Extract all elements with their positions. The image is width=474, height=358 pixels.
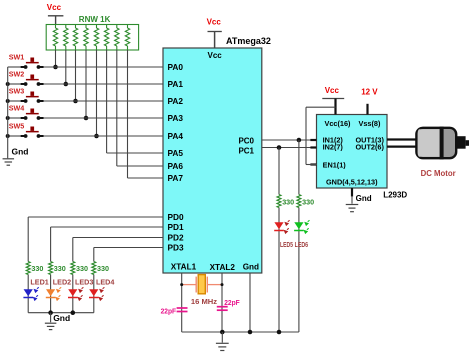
junction LED bus col2 <box>48 310 53 315</box>
svg-text:LED2: LED2 <box>53 277 71 286</box>
pin label PD1 <box>168 222 185 232</box>
svg-text:12 V: 12 V <box>361 88 378 97</box>
pin stub IN2 <box>310 146 316 148</box>
resistor RNW element 4 <box>84 25 88 51</box>
svg-text:330: 330 <box>302 198 314 207</box>
power Vcc symbol (U1) <box>207 18 222 49</box>
label L293D <box>383 190 407 199</box>
svg-text:ATmega32: ATmega32 <box>226 36 271 46</box>
wire PD1 to LED2 column <box>51 227 163 313</box>
LED LED1 <box>23 287 38 301</box>
LED LED2 <box>46 287 61 301</box>
pin label PA1 <box>168 79 184 89</box>
svg-text:PD3: PD3 <box>168 243 185 253</box>
resistor 330 (LED2) <box>49 262 66 275</box>
svg-text:PA2: PA2 <box>168 96 184 106</box>
switch SW3 <box>8 87 163 103</box>
resistor 330 (LED3) <box>71 262 88 275</box>
pin label PA3 <box>168 113 184 123</box>
pin label GND(4,5,12,13) <box>326 177 378 186</box>
pin label PD2 <box>168 233 185 243</box>
svg-text:PC0: PC0 <box>238 136 254 145</box>
pin label PD3 <box>168 243 185 253</box>
wire RNW pin 6 to PA5 <box>107 50 163 153</box>
power Vcc symbol (RNW) <box>47 3 64 25</box>
junction rail-SW2 <box>6 82 10 86</box>
label LED4 <box>96 277 114 286</box>
wire ground rail (switches) <box>7 67 9 158</box>
svg-text:Vcc: Vcc <box>325 86 340 95</box>
junction rail-SW3 <box>6 99 10 103</box>
svg-text:Vcc(16): Vcc(16) <box>325 119 352 128</box>
resistor RNW element 7 <box>115 25 119 51</box>
capacitor C1 22pF <box>161 306 188 315</box>
pin label Vcc (U1 top inside) <box>208 51 223 60</box>
label RNW 1K <box>79 15 111 24</box>
resistor RNW element 6 <box>104 25 108 51</box>
wire RNW pin 3 to SW3 row <box>73 50 78 103</box>
label ATmega32 <box>226 36 271 46</box>
pin label PA4 <box>168 131 184 141</box>
ground (LED bus) <box>45 313 70 330</box>
LED LED6 <box>294 220 309 234</box>
pin stub EN1 <box>310 163 316 165</box>
svg-text:330: 330 <box>76 264 88 273</box>
svg-text:22pF: 22pF <box>224 298 240 307</box>
label LED1 <box>30 277 48 286</box>
pin stub IN1 <box>310 139 316 141</box>
svg-text:LED5: LED5 <box>280 240 293 249</box>
power 12 V supply <box>361 88 378 115</box>
wire bottom ground bus <box>182 331 299 333</box>
wire PC1 to IN2 <box>262 147 317 149</box>
DC motor body <box>416 127 469 160</box>
pin label PD0 <box>168 212 185 222</box>
junction PC1/LED5 <box>277 145 282 150</box>
resistor RNW element 2 <box>64 25 68 51</box>
pin label IN1(2) <box>323 135 344 144</box>
LED LED3 <box>68 287 83 301</box>
wire XTAL2 pin down <box>221 273 223 332</box>
pin label PC0 <box>238 136 254 145</box>
svg-text:LED3: LED3 <box>75 277 93 286</box>
pin label IN2(7) <box>323 143 344 152</box>
ground (bottom) <box>216 332 229 351</box>
wire PC0 to IN1 <box>262 139 317 141</box>
svg-text:DC Motor: DC Motor <box>421 169 456 178</box>
pin label Vss(8) <box>359 119 381 128</box>
junction bus LED5 <box>277 330 282 335</box>
switch SW1 <box>8 53 163 69</box>
ground (U2) <box>346 188 372 212</box>
svg-text:330: 330 <box>54 264 66 273</box>
wire RNW pin 4 to SW4 row <box>84 50 89 120</box>
pin label OUT1(3) <box>356 135 385 144</box>
label LED5 <box>280 240 293 249</box>
svg-text:Gnd: Gnd <box>356 194 372 203</box>
LED LED4 <box>89 287 104 301</box>
svg-text:LED1: LED1 <box>30 277 48 286</box>
svg-text:PA4: PA4 <box>168 131 184 141</box>
svg-text:Vcc: Vcc <box>47 3 62 12</box>
LED LED5 <box>274 220 289 234</box>
wire OUT2 to motor <box>387 145 417 147</box>
junction rail-SW4 <box>6 116 10 120</box>
svg-text:330: 330 <box>282 198 294 207</box>
svg-text:PA6: PA6 <box>168 161 184 171</box>
switch SW2 <box>8 70 163 86</box>
wire RNW pin 5 to SW5 row <box>94 50 99 138</box>
switch SW4 <box>8 104 163 120</box>
junction rail-SW5 <box>6 134 10 138</box>
wire RNW pin 2 to SW2 row <box>64 50 69 86</box>
pin label PA7 <box>168 173 184 183</box>
svg-text:330: 330 <box>97 264 109 273</box>
wire LED5 column <box>278 148 280 333</box>
svg-text:GND(4,5,12,13): GND(4,5,12,13) <box>326 177 378 186</box>
label LED2 <box>53 277 71 286</box>
pin label OUT2(6) <box>356 143 385 152</box>
pin label PA2 <box>168 96 184 106</box>
wire RNW pin 1 to SW1 row <box>53 50 58 69</box>
label LED3 <box>75 277 93 286</box>
svg-text:PD0: PD0 <box>168 212 185 222</box>
pin label XTAL1 <box>171 262 197 271</box>
switch SW5 <box>8 122 163 138</box>
svg-text:PD2: PD2 <box>168 233 185 243</box>
wire PD0 to LED1 column <box>28 217 163 313</box>
svg-text:SW2: SW2 <box>9 70 25 79</box>
svg-text:16 MHz: 16 MHz <box>191 297 217 306</box>
pin label PC1 <box>238 146 254 155</box>
ground (switch rail) <box>3 146 29 165</box>
pin label EN1(1) <box>323 160 347 169</box>
svg-text:SW3: SW3 <box>9 87 25 96</box>
svg-text:XTAL2: XTAL2 <box>210 263 236 272</box>
svg-text:LED4: LED4 <box>96 277 114 286</box>
resistor RNW element 1 <box>53 25 57 51</box>
svg-text:L293D: L293D <box>383 190 407 199</box>
resistor 330 (LED1) <box>26 262 43 275</box>
svg-text:PA1: PA1 <box>168 79 184 89</box>
resistor 330 (LED5) <box>277 195 294 208</box>
resistor RNW element 3 <box>73 25 77 51</box>
svg-text:SW5: SW5 <box>9 122 25 131</box>
wire Gnd pin down <box>249 273 251 332</box>
svg-text:Vcc: Vcc <box>208 51 223 60</box>
svg-text:LED6: LED6 <box>295 240 309 249</box>
pin label XTAL2 <box>210 263 236 272</box>
resistor RNW element 8 <box>125 25 129 51</box>
wire LED6 column <box>298 140 300 332</box>
label 16 MHz <box>191 297 217 306</box>
svg-text:EN1(1): EN1(1) <box>323 160 347 169</box>
junction PC0/LED6 <box>297 138 302 143</box>
power Vcc symbol (U2) <box>322 86 344 115</box>
wire XTAL1 pin down <box>181 273 183 332</box>
svg-text:PA5: PA5 <box>168 148 184 158</box>
wire LED bus <box>28 312 94 314</box>
pin label Vcc(16) <box>325 119 352 128</box>
svg-text:PA0: PA0 <box>168 62 184 72</box>
svg-text:Gnd: Gnd <box>53 313 70 323</box>
svg-text:PA3: PA3 <box>168 113 184 123</box>
svg-text:SW1: SW1 <box>9 53 25 62</box>
junction bus Gnd pin <box>248 330 253 335</box>
resistor 330 (LED4) <box>92 262 109 275</box>
svg-text:22pF: 22pF <box>161 306 177 315</box>
wire OUT1 to motor <box>387 138 417 140</box>
svg-text:SW4: SW4 <box>9 104 25 113</box>
wire RNW pin 8 to PA7 <box>128 50 164 178</box>
svg-text:PA7: PA7 <box>168 173 184 183</box>
wire EN1 to Vcc net <box>306 107 336 164</box>
svg-text:OUT2(6): OUT2(6) <box>356 143 385 152</box>
svg-text:Vss(8): Vss(8) <box>359 119 381 128</box>
resistor RNW element 5 <box>94 25 98 51</box>
op-amp U1 ATmega32 body <box>163 48 262 273</box>
op-amp U2 L293D body <box>317 115 388 189</box>
pin label PA0 <box>168 62 184 72</box>
wire PD2 to LED3 column <box>73 238 163 313</box>
wire RNW pin 7 to PA6 <box>117 50 163 166</box>
resistor 330 (LED6) <box>297 195 314 208</box>
junction bus XTAL2 <box>220 330 225 335</box>
svg-text:PD1: PD1 <box>168 222 185 232</box>
label LED6 <box>295 240 309 249</box>
label DC Motor <box>421 169 456 178</box>
junction LED bus col3 <box>71 310 76 315</box>
svg-text:Vcc: Vcc <box>207 18 222 27</box>
svg-text:XTAL1: XTAL1 <box>171 262 197 271</box>
svg-text:PC1: PC1 <box>238 146 254 155</box>
svg-text:Gnd: Gnd <box>243 263 259 272</box>
svg-text:330: 330 <box>31 264 43 273</box>
pin label PA5 <box>168 148 184 158</box>
svg-text:IN2(7): IN2(7) <box>323 143 344 152</box>
pin label Gnd (U1 bottom) <box>243 263 259 272</box>
wire PD3 to LED4 column <box>94 248 163 313</box>
resistor network RNW 1K box <box>46 25 138 51</box>
svg-text:RNW 1K: RNW 1K <box>79 15 111 24</box>
pin label PA6 <box>168 161 184 171</box>
crystal X1 16 MHz <box>180 275 223 294</box>
capacitor C2 22pF <box>217 298 240 310</box>
svg-text:Gnd: Gnd <box>12 146 29 156</box>
